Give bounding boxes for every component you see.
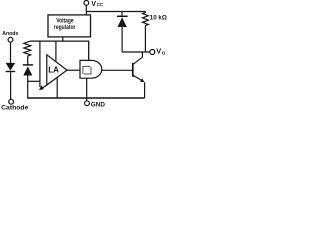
ground rail	[27, 97, 144, 99]
anode terminal	[8, 37, 13, 42]
Vo label	[156, 47, 166, 57]
svg-text:CC: CC	[97, 2, 104, 7]
LA bottom lead	[56, 77, 58, 98]
Vcc terminal	[84, 1, 89, 6]
photodiode PD1	[23, 65, 33, 76]
voltage regulator label	[54, 18, 76, 30]
wire anode stem	[10, 42, 12, 63]
resistor R1	[24, 41, 31, 65]
wire gate to base	[101, 69, 132, 71]
svg-text:GND: GND	[91, 102, 105, 109]
wire cathode stem	[10, 72, 12, 99]
svg-text:LA: LA	[48, 66, 59, 75]
wire PD tee	[28, 80, 40, 82]
wire bias line	[39, 42, 41, 88]
svg-text:V: V	[91, 1, 96, 8]
hysteresis symbol	[83, 66, 91, 74]
voltage regulator lead	[62, 37, 64, 42]
GND terminal	[85, 101, 90, 106]
wire PD anode to ground rail	[27, 76, 29, 99]
op-amp LA	[47, 55, 67, 85]
pull-up resistor R2	[143, 12, 149, 53]
internal supply rail	[30, 41, 89, 60]
svg-text:regulator: regulator	[54, 25, 76, 31]
Vcc label	[91, 1, 103, 8]
svg-text:Anode: Anode	[2, 31, 19, 37]
clamp diode D2	[117, 12, 128, 53]
schmitt gate U2	[80, 60, 102, 78]
svg-text:Voltage: Voltage	[56, 18, 74, 24]
Vo wire	[122, 51, 150, 53]
svg-text:10 kΩ: 10 kΩ	[150, 15, 167, 22]
Vcc rail	[86, 11, 145, 13]
svg-text:V: V	[156, 47, 161, 56]
light arrow	[39, 85, 47, 90]
svg-text:O: O	[162, 50, 166, 56]
voltage regulator U1	[48, 15, 91, 37]
LA top lead	[55, 42, 57, 63]
Vo terminal	[150, 50, 155, 55]
LED D1	[6, 63, 16, 72]
svg-text:Cathode: Cathode	[1, 105, 29, 112]
transistor Q1	[133, 52, 145, 98]
gate bottom / GND lead	[86, 78, 88, 101]
wire Vcc stem	[85, 5, 87, 15]
cathode terminal	[9, 99, 14, 104]
wire LA to gate	[67, 69, 80, 71]
